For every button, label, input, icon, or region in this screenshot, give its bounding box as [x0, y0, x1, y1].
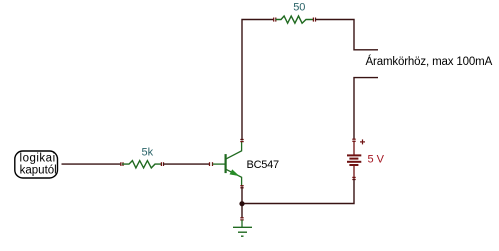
junction dot — [239, 201, 244, 206]
svg-text:Áramkörhöz, max 100mA: Áramkörhöz, max 100mA — [366, 55, 493, 68]
pin tick R1 left — [121, 162, 123, 166]
resistor R1 — [122, 161, 161, 168]
pin tick Q1 emitter — [240, 186, 243, 188]
input box "logikai kaputól" — [15, 151, 58, 178]
pin tick R2 right — [313, 18, 315, 22]
pin tick battery minus — [352, 177, 355, 179]
pin tick ground — [240, 218, 243, 220]
wire emitter to junction — [241, 187, 243, 219]
svg-text:50: 50 — [293, 2, 305, 14]
battery B1 — [347, 141, 361, 180]
pin tick R1 right — [161, 162, 163, 166]
wire box to R1 — [62, 163, 122, 165]
plus sign — [360, 139, 365, 144]
pin tick battery plus — [352, 139, 355, 141]
svg-text:kaputól: kaputól — [20, 165, 57, 177]
wire collector to top rail — [242, 20, 274, 141]
pin tick Q1 collector — [240, 140, 243, 142]
pin tick Q1 base — [210, 162, 213, 166]
ground symbol — [233, 220, 252, 236]
svg-text:5k: 5k — [142, 147, 154, 159]
resistor R2 — [276, 16, 314, 23]
emitter arrow — [230, 170, 238, 176]
wire R2 to output stub — [315, 20, 378, 50]
wire stub2 to battery — [354, 78, 378, 139]
transistor Q1 BC547 — [213, 141, 242, 186]
wire R1 to Q1 base — [163, 163, 210, 165]
pin tick R2 left — [274, 18, 276, 22]
svg-text:BC547: BC547 — [247, 159, 280, 171]
svg-text:logikai: logikai — [20, 152, 56, 164]
svg-text:5 V: 5 V — [368, 154, 385, 166]
wire battery to bottom rail — [242, 179, 354, 204]
